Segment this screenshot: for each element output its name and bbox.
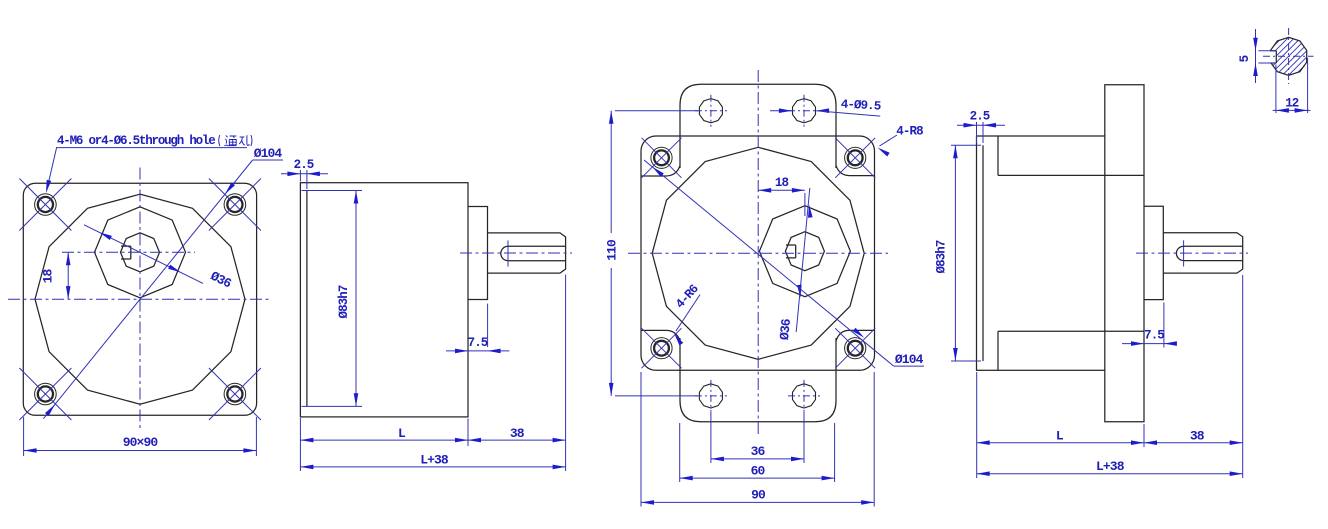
view4 keyway cross tick [1183, 240, 1185, 266]
detail keyway slot [1269, 51, 1277, 63]
view1 shaft keyway notch [121, 246, 131, 259]
view1 mounting hole bottom-right (4-M6) [209, 368, 261, 420]
svg-text:38: 38 [1190, 429, 1205, 444]
view3 dim 60 [680, 423, 835, 482]
view3 shaft keyway notch [786, 245, 796, 258]
svg-text:90×90: 90×90 [123, 435, 159, 450]
view3 dim 110 [609, 111, 698, 396]
svg-text:38: 38 [510, 426, 525, 441]
svg-text:L: L [398, 426, 406, 441]
view3 gearbox body circle (12-gon) [652, 147, 864, 359]
detail dim 5 [1253, 29, 1276, 83]
svg-text:Ø104: Ø104 [895, 352, 924, 367]
svg-text:L+38: L+38 [1096, 459, 1125, 474]
view1 mounting hole bottom-left (4-M6) [19, 368, 71, 420]
view3 tab hole top-right (4-D9.5) [788, 95, 820, 127]
view4 output shaft [1163, 233, 1242, 273]
svg-text:4-R8: 4-R8 [896, 125, 923, 139]
svg-text:60: 60 [751, 464, 766, 479]
view3 corner pad top-left [641, 166, 680, 176]
detail shaft section circle [1271, 37, 1307, 75]
view2 keyway cross tick [507, 240, 509, 266]
svg-text:L: L [1056, 429, 1064, 444]
view3 pad hole top-right [835, 138, 875, 178]
view3 label 4-R8 leader [878, 135, 898, 157]
view1 vertical centerline [139, 168, 141, 432]
view3 tab hole bottom-right (4-D9.5) [788, 380, 820, 412]
detail horizontal centerline [1263, 55, 1314, 57]
view3 dim 36 [711, 412, 804, 463]
view4 dim 2.5 [957, 122, 1005, 143]
view2 dim 38 [468, 275, 566, 472]
svg-text:2.5: 2.5 [970, 110, 990, 124]
svg-text:2.5: 2.5 [294, 158, 314, 172]
svg-text:Ø36: Ø36 [777, 318, 794, 341]
view2 shaft centerline [460, 252, 572, 254]
view3 label 4-R6 leader [674, 295, 700, 346]
view1 dim 18 [66, 252, 71, 299]
svg-text:5: 5 [1238, 55, 1252, 62]
view1 mounting hole top-left (4-M6) [19, 179, 71, 231]
view3 pad hole top-left [642, 138, 682, 178]
svg-text:7.5: 7.5 [468, 336, 488, 350]
view3 corner pad bottom-left [641, 330, 680, 341]
svg-text:18: 18 [775, 176, 789, 190]
view3 label 4-D9.5 dim [770, 108, 880, 116]
view3 dim D36 line [796, 188, 812, 332]
detail vertical centerline [1288, 28, 1290, 84]
view3 pad hole bottom-left [642, 328, 682, 368]
svg-text:36: 36 [751, 444, 766, 459]
view2 output shaft [488, 233, 566, 273]
view2 gearbox body rectangle [300, 183, 468, 417]
view2 dim 2.5 [281, 170, 328, 189]
view1 label CJK tong-kong in parentheses [219, 135, 252, 146]
view4 dim 7.5 [1122, 303, 1177, 348]
view3 vertical tab outline [680, 84, 836, 422]
svg-text:Ø83h7: Ø83h7 [935, 240, 949, 273]
svg-text:Ø104: Ø104 [254, 146, 283, 161]
view1 flange plate 90x90 outline [23, 183, 256, 415]
view2 output boss D36 [468, 207, 488, 300]
svg-text:L+38: L+38 [420, 453, 449, 468]
view3 horizontal centerline [628, 252, 888, 254]
view1 gearbox body circle (12-gon) [35, 194, 245, 404]
view3 boss circle D36 (octagon) [759, 206, 850, 297]
view4 gearbox body rectangle [977, 136, 1105, 370]
view1 label 4-M6 leader [46, 148, 247, 193]
view3 tab hole bottom-left (4-D9.5) [695, 380, 727, 412]
view1 dim 90x90 [24, 417, 257, 456]
view4 dim 38 [1144, 275, 1243, 478]
view4 pilot spigot D83 step line [982, 145, 984, 361]
view2 dim 7.5 [446, 304, 509, 354]
view3 corner pad top-right [836, 166, 874, 176]
detail dim 12 [1273, 58, 1311, 113]
view2 dim D83h7 [302, 191, 363, 407]
svg-text:Ø83h7: Ø83h7 [337, 285, 351, 318]
view2 pilot spigot D83 step line [306, 191, 308, 407]
view3 pad hole bottom-right [835, 328, 875, 368]
svg-text:4-Ø9.5: 4-Ø9.5 [840, 97, 881, 113]
view3 dim 18 [758, 188, 805, 216]
svg-text:18: 18 [41, 269, 56, 284]
detail shaft section hatching [1227, 26, 1328, 86]
view2 dim L+38 [300, 465, 565, 470]
svg-text:110: 110 [605, 239, 620, 261]
view3 vertical centerline [757, 70, 759, 436]
view4 body internal step [998, 136, 1144, 370]
view3 dim 90 [641, 372, 874, 507]
view3 shaft circle (octagon) [785, 232, 824, 271]
view3 corner pad bottom-right [836, 330, 874, 341]
view4 dim D83h7 [951, 145, 981, 361]
view2 dim L [300, 418, 468, 471]
view2 shaft keyway [501, 246, 566, 260]
view4 shaft centerline [1136, 252, 1248, 254]
view3 tab hole top-left (4-D9.5) [695, 95, 727, 127]
view4 flange plate profile [1105, 85, 1144, 422]
view4 output boss D36 [1144, 206, 1163, 299]
view3 flange plate 90 outline [641, 136, 875, 370]
view4 shaft keyway [1176, 246, 1242, 260]
svg-text:4-M6 or4-Ø6.5through hole: 4-M6 or4-Ø6.5through hole [57, 134, 215, 148]
view1 horizontal centerline [8, 298, 272, 300]
view4 dim L [977, 372, 1144, 478]
svg-text:12: 12 [1285, 97, 1299, 111]
svg-text:7.5: 7.5 [1144, 329, 1164, 343]
view3 dim D104 diagonal [644, 160, 924, 366]
view1 dim D104 diagonal [43, 160, 283, 419]
view1 shaft horizontal centerline [62, 251, 195, 253]
view1 boss circle D36 (octagon) [95, 207, 186, 298]
view1 shaft circle (octagon) [121, 233, 160, 272]
view1 dim D36 line [84, 225, 203, 284]
svg-text:90: 90 [751, 488, 766, 503]
view1 mounting hole top-right (4-M6) [209, 179, 261, 231]
view4 dim L+38 [977, 471, 1243, 476]
